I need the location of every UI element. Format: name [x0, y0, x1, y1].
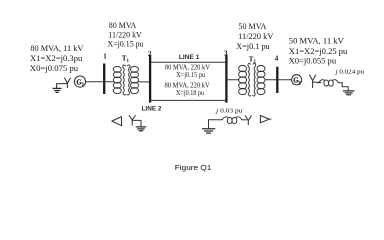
wye symbol (T2 secondary): [245, 116, 251, 125]
svg-text:X=j0.15 pu: X=j0.15 pu: [176, 72, 206, 79]
wire bus 4 to G2: [277, 79, 291, 81]
svg-text:X1=X2=j0.3pu: X1=X2=j0.3pu: [30, 54, 82, 63]
wire T2 to bus 4: [265, 79, 277, 81]
transformer T1 secondary winding: [127, 65, 138, 95]
svg-text:LINE 2: LINE 2: [142, 105, 162, 112]
svg-text:X=j0.18 pu: X=j0.18 pu: [176, 90, 204, 97]
ground (G2 neutral reactor): [343, 91, 353, 95]
line 2 ratings label: [165, 83, 210, 97]
wire bus 1 to T1: [104, 81, 113, 83]
bus 4: [276, 67, 278, 93]
svg-text:Figure Q1: Figure Q1: [175, 163, 212, 172]
ground (T1 neutral): [136, 127, 145, 131]
wire wye to neutral reactor: [313, 81, 321, 84]
svg-text:80 MVA, 220 kV: 80 MVA, 220 kV: [165, 65, 210, 72]
svg-text:X0=j0.075 pu: X0=j0.075 pu: [30, 64, 78, 73]
svg-text:4: 4: [275, 56, 279, 63]
svg-text:50 MVA: 50 MVA: [238, 22, 266, 31]
transformer T2 secondary winding: [253, 63, 265, 96]
wire reactor to ground (G2): [339, 83, 349, 91]
generator G2: [292, 75, 302, 87]
svg-text:j 0.024 pu: j 0.024 pu: [334, 69, 364, 76]
wire wye to ground (T1): [132, 120, 141, 126]
svg-text:X=j0.1 pu: X=j0.1 pu: [236, 42, 270, 51]
wire ground to reactor (T2 neutral): [209, 120, 223, 129]
bus 3: [225, 55, 227, 103]
svg-text:LINE 1: LINE 1: [179, 54, 200, 61]
generator G2 ratings label: [289, 37, 348, 66]
wire T1 to bus 2: [139, 81, 150, 83]
wire G1 to bus 1: [86, 81, 105, 83]
bus 1: [103, 64, 105, 95]
ground (G1 neutral): [53, 84, 67, 93]
bus 2: [149, 55, 151, 103]
svg-text:80 MVA, 220 kV: 80 MVA, 220 kV: [165, 83, 210, 90]
wye symbol (G2 winding): [310, 75, 316, 88]
transmission line 1: [150, 61, 226, 63]
wye symbol (T1 secondary): [129, 116, 135, 126]
generator G1: [74, 76, 85, 88]
ground (T2 neutral reactor): [203, 129, 215, 133]
transformer T2 primary winding: [239, 63, 251, 96]
svg-text:11/220 kV: 11/220 kV: [238, 32, 273, 41]
transmission line 2: [150, 99, 226, 101]
wire reactor to wye (T2): [242, 119, 247, 121]
grounding reactor (G2 neutral) j0.024 pu: [317, 80, 338, 87]
transformer T1 ratings label: [108, 21, 144, 49]
svg-text:X0=j0.055 pu: X0=j0.055 pu: [289, 57, 337, 66]
svg-text:1: 1: [103, 53, 107, 60]
svg-text:11/220 kV: 11/220 kV: [108, 31, 142, 40]
wye symbol (G1 winding): [65, 78, 71, 88]
transformer T1 primary winding: [113, 65, 125, 95]
delta symbol (T1 primary): [112, 117, 122, 126]
svg-text:80 MVA: 80 MVA: [109, 21, 137, 30]
svg-text:X=j0.15 pu: X=j0.15 pu: [108, 40, 144, 49]
delta symbol (T2 primary): [260, 116, 271, 123]
transformer T2 ratings label: [236, 22, 273, 51]
svg-text:50 MVA, 11 kV: 50 MVA, 11 kV: [289, 37, 344, 46]
wire bus 3 to T2: [226, 79, 238, 81]
generator G1 ratings label: [30, 44, 84, 73]
svg-text:j 0.03 pu: j 0.03 pu: [215, 107, 243, 114]
grounding reactor (T2 neutral) j0.03 pu: [222, 117, 241, 124]
line 1 ratings label: [165, 65, 210, 79]
svg-text:80 MVA, 11 kV: 80 MVA, 11 kV: [30, 44, 83, 53]
svg-text:X1=X2=j0.25 pu: X1=X2=j0.25 pu: [289, 47, 348, 56]
